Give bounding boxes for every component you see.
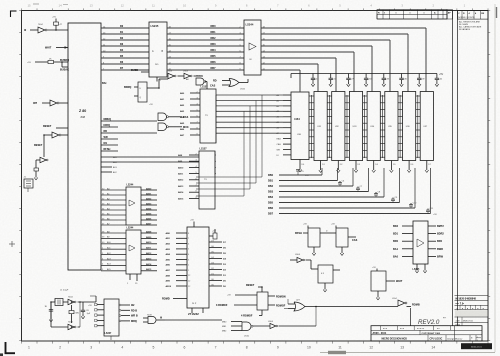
label BAI near Z80 <box>102 82 107 85</box>
DRAM U32 4164 <box>332 92 345 173</box>
flip-flop U25 LS74 wait gen <box>371 267 403 300</box>
wire DRAM shared address/control bus rungs <box>309 96 420 157</box>
resistor R5 feedback <box>69 305 80 323</box>
page edge shadow right <box>495 4 497 352</box>
label +5V end of DB bus <box>433 214 437 216</box>
wire address bus A8-A15 Z80 to LS244 U12 <box>101 230 126 271</box>
gate U10a NAND RAS <box>158 113 189 121</box>
oscillator wiring <box>51 299 96 328</box>
DRAM U33 4164 <box>349 92 362 173</box>
gate U27 LS32 <box>288 298 398 311</box>
octal buffer U7 LS244 <box>244 20 261 75</box>
wire RAM data fan LS244 to DRAM array <box>261 26 426 91</box>
flip-flop U21 LS74 CAS timing <box>326 224 358 256</box>
capacitors along DB bus <box>338 181 434 214</box>
flip-flop U26 LS74 ROM enable <box>216 284 286 318</box>
gate U31 LS04 <box>253 307 316 329</box>
flip-flop U23 LS74 <box>311 260 340 292</box>
DRAM U35 4164 <box>385 92 398 173</box>
title block <box>371 326 482 342</box>
EPROM U9 2716/32 <box>162 220 227 317</box>
flip-flop U20 LS74 RAS timing <box>295 224 336 256</box>
capacitors C21-C42 decoupling DRAM <box>311 74 443 87</box>
gate U2b 7404 INT <box>33 100 68 106</box>
hand-written revision note REV2.0 <box>418 317 446 327</box>
gate U29 LS10 NAND3 <box>222 321 253 337</box>
small connector J1 left margin <box>24 177 34 193</box>
buffer U24 LS365 <box>393 221 444 273</box>
gate U22 LS04 <box>290 254 311 263</box>
+5V rail over DRAM array <box>291 74 444 79</box>
gate U17 7408 <box>143 314 222 323</box>
hex buffer U16 LS367 <box>88 299 138 340</box>
page bottom edge shadow <box>320 351 495 354</box>
wire ROM select riser <box>284 299 288 309</box>
wire DRAM gap verticals <box>302 95 432 166</box>
DRAM U34 4164 <box>367 92 380 173</box>
wire multiplexed address MA0-MA7 to DRAM <box>216 95 283 133</box>
revision table <box>377 10 447 19</box>
wire WAIT into Z80 <box>45 46 68 49</box>
right strip part-number rows <box>455 296 489 342</box>
DRAM U37 4164 <box>420 92 433 173</box>
bottom-left page corner mark <box>0 353 3 356</box>
multiplexer U13 LS157 <box>180 86 216 143</box>
gate U2a 7404 clock driver <box>24 24 68 33</box>
gate U5a LS04 <box>167 71 176 79</box>
corner crop mark bottom-left L <box>5 342 15 354</box>
wire Z80 upper address stubs <box>101 156 199 174</box>
wire clock to Z80 <box>90 296 96 302</box>
mux output joiners <box>215 95 216 175</box>
gate U8 LS32 RAM write <box>210 79 248 91</box>
wire data bus D0-D7 Z80 to LS245 <box>101 25 149 70</box>
wire refresh address risers <box>196 95 262 196</box>
notes text block <box>459 20 482 31</box>
label ROMB <box>412 303 420 306</box>
scan noise overlay <box>0 0 1 1</box>
gate U3 LS14 reset shaper <box>34 144 48 168</box>
multiplexer U14 LS157 <box>178 148 215 209</box>
bottom zone numbers <box>28 346 466 350</box>
mux select gate U15 <box>186 75 207 89</box>
capacitor C2 <box>81 302 91 319</box>
capacitor C1 <box>45 302 54 322</box>
wire U4 output to gate row <box>147 79 168 106</box>
wire RESET into Z80 <box>43 125 68 128</box>
DRAM U36 4164 <box>403 92 416 173</box>
DRAM U30 4164 with pin labels <box>277 92 310 172</box>
flip-flop U4 LS74 bus request sync <box>124 82 147 102</box>
gate U2c 7404 NMI <box>44 132 68 156</box>
right margin column rules <box>453 11 458 326</box>
octal buffer U12 LS244 <box>126 227 157 274</box>
octal transceiver U6 LS245 <box>149 22 167 77</box>
resistor R2 pullup BUSRQ <box>27 58 69 64</box>
black corner label <box>461 343 492 349</box>
faint marks top margin <box>33 3 68 6</box>
wire Z80 control signals MREQ IORQ RD WR M1 RFSH <box>101 118 157 151</box>
top zone numbers <box>27 4 465 8</box>
DRAM U31 4164 <box>314 92 327 173</box>
wire ROMB to title area <box>410 308 412 326</box>
notes column header cells <box>458 11 489 20</box>
gate U2e 7404 osc <box>68 322 76 330</box>
wire address bus A0-A7 Z80 to LS244 U11 <box>101 187 126 225</box>
gate U5b LS04 <box>178 71 204 79</box>
buffer enable stubs <box>127 274 138 285</box>
wire BUSAK stub <box>60 62 69 72</box>
crystal Y1 2MHz <box>55 289 69 305</box>
registration cross left margin <box>9 241 15 247</box>
resistor R3 <box>34 168 39 180</box>
corner crop mark top-left <box>10 11 17 18</box>
wire DRAM data out bus DB0-DB7 <box>268 168 431 216</box>
octal buffer U11 LS244 <box>126 184 157 226</box>
gate U28 LS04 ROMB <box>398 300 411 307</box>
wire buffered data bus DB0-DB7 LS245 to LS244 <box>167 25 244 70</box>
resistor R1 pullup CLK <box>52 17 63 30</box>
Z80 CPU U1 <box>68 23 101 270</box>
gate U2d 7404 osc <box>68 297 76 305</box>
wire LS245 DIR enable <box>131 69 162 82</box>
capacitor C50 on DB0 <box>296 170 309 177</box>
revision approval cells <box>447 10 453 19</box>
gate U10b NAND MUX <box>158 123 189 131</box>
